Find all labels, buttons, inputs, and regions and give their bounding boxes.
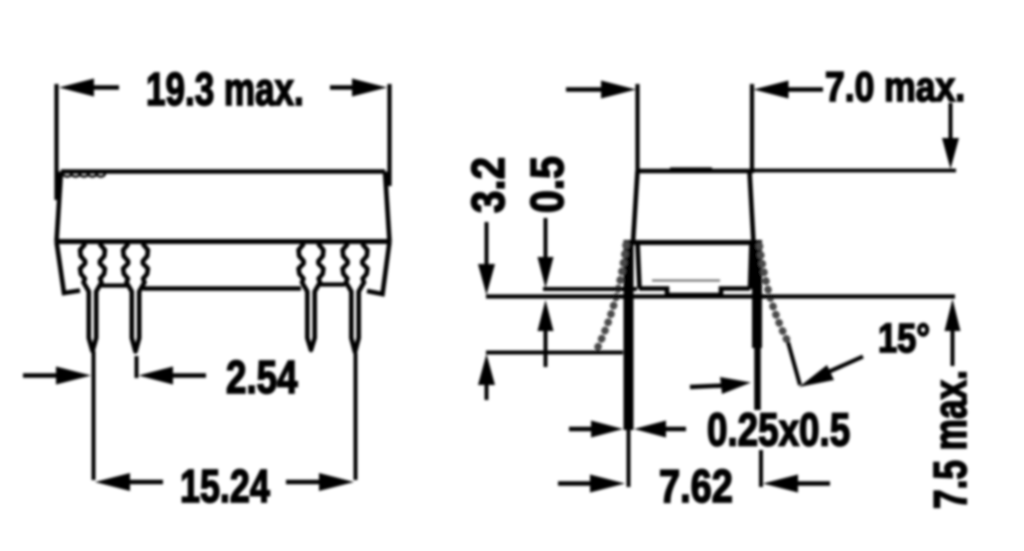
- svg-text:0.25x0.5: 0.25x0.5: [707, 404, 850, 456]
- top bump: [670, 167, 712, 170]
- dimension 7.62 arrow right: [763, 475, 798, 493]
- svg-text:2.54: 2.54: [226, 351, 298, 403]
- standoff bottom extension line (0.5 ref): [543, 287, 637, 291]
- pin2 extension line down: [135, 356, 139, 378]
- dimension 2.54 arrow right: [139, 367, 174, 385]
- right pin extension: [759, 450, 763, 487]
- right pin (side view): [752, 240, 762, 348]
- svg-text:0.5: 0.5: [523, 156, 574, 213]
- dimension 0.5 extension + arrows: [544, 218, 548, 260]
- right end flap: [367, 242, 390, 295]
- pin 3 (front view): [299, 244, 324, 351]
- pin 2 (front view): [123, 244, 148, 352]
- left pin extension: [627, 430, 631, 487]
- left end flap: [57, 242, 81, 294]
- web line between pin1 and pin2: [101, 283, 127, 287]
- extension line right (19.3): [387, 84, 391, 186]
- svg-text:19.3 max.: 19.3 max.: [146, 63, 304, 115]
- svg-text:3.2: 3.2: [464, 157, 515, 213]
- leader 15 deg: [826, 357, 863, 374]
- svg-text:15°: 15°: [878, 316, 930, 361]
- svg-text:7.0 max.: 7.0 max.: [825, 64, 965, 110]
- splayed pin phantom left (dotted): [597, 245, 626, 349]
- dimension 2.54 leader left: [23, 373, 60, 377]
- flange bottom with notch: [639, 289, 750, 296]
- body side view right side: [750, 171, 754, 243]
- extension line left (7.0): [635, 84, 639, 171]
- body side view left side: [633, 171, 638, 243]
- extension line right (7.0): [750, 84, 754, 171]
- dimension 7.62 arrow left: [558, 481, 592, 485]
- dimension 15.24 arrow left: [95, 473, 130, 491]
- pin 4 (front view): [343, 244, 368, 353]
- web line between pin3 and pin4: [319, 282, 345, 286]
- extension line left (19.3): [54, 84, 58, 200]
- body side view bottom line: [624, 240, 761, 245]
- faint inner standoff line: [652, 279, 720, 281]
- splayed pin phantom right (dotted): [760, 246, 789, 342]
- dimension 7.0 max arrow right: [754, 81, 789, 99]
- svg-text:7.5 max.: 7.5 max.: [924, 370, 976, 509]
- pin 1 (front view, crimped shoulder + lead): [80, 244, 105, 352]
- dimension 0.25 arrows at left pin: [569, 427, 594, 431]
- dimension 7.0 max arrow left: [566, 87, 606, 91]
- dimension 15.24 arrow right: [319, 473, 354, 491]
- dimension 19.3 max arrow left: [59, 79, 94, 97]
- dimension 19.3 max arrow right: [352, 79, 387, 97]
- pin4 extension line down: [354, 353, 358, 480]
- svg-text:15.24: 15.24: [180, 461, 270, 512]
- package body front view: [61, 169, 385, 174]
- splayed pin solid segment right: [788, 342, 800, 385]
- central standoff bottom line: [143, 286, 301, 291]
- arrow pointing at right pin (0.25x0.5): [690, 386, 724, 388]
- dimension 3.2 extension + arrows: [485, 222, 489, 266]
- seating plane line: [486, 294, 955, 298]
- lower reference line (3.2): [486, 351, 623, 355]
- scallop texture under top edge: [63, 174, 105, 177]
- dimension 7.5 max arrow up: [945, 299, 961, 331]
- flange left side: [638, 243, 640, 289]
- pin1 extension line down: [92, 351, 96, 480]
- svg-text:7.62: 7.62: [659, 461, 733, 512]
- body side view top line + extension: [637, 169, 754, 174]
- leader down to top surface: [949, 103, 953, 142]
- flange right side: [750, 243, 752, 290]
- left pin (side view): [624, 240, 634, 430]
